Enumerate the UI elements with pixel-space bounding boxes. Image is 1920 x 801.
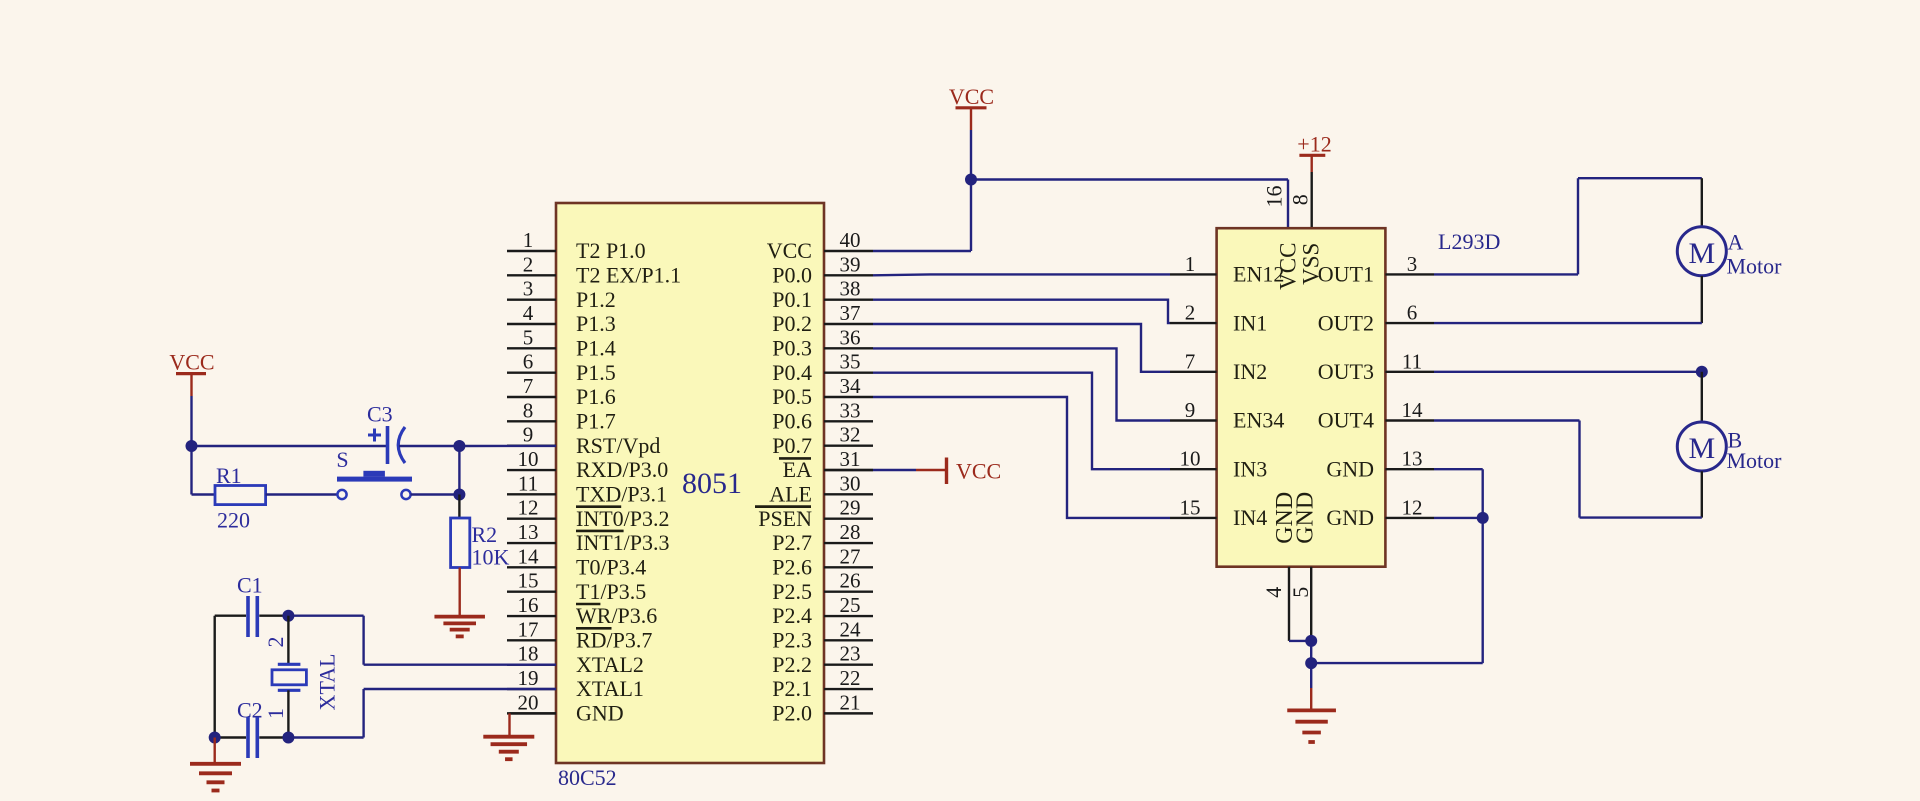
svg-text:P0.0: P0.0 [772,263,812,288]
svg-text:8: 8 [1288,194,1313,205]
wire C2 right lead to node [259,736,288,738]
svg-text:P2.3: P2.3 [772,628,812,653]
U2 pin 6 stub (OUT2) [1318,301,1434,336]
svg-text:8: 8 [523,398,534,422]
svg-text:34: 34 [840,374,862,398]
U1 pin 40 stub (VCC) [767,228,873,263]
capacitor C3 (polarized) [386,426,390,464]
svg-text:P0.7: P0.7 [772,433,812,458]
svg-text:2: 2 [1185,301,1196,325]
wire to U1 pin 18 XTAL2 [364,664,556,666]
U1 pin 34 stub (P0.5) [772,374,873,409]
svg-text:4: 4 [1261,587,1286,598]
svg-text:P2.0: P2.0 [772,701,812,726]
power port +12 [1297,132,1331,173]
U2 pin 11 stub (OUT3) [1318,349,1434,384]
wire R1 to switch S left terminal [266,493,338,495]
svg-text:P2.7: P2.7 [772,530,812,555]
svg-text:T2 P1.0: T2 P1.0 [576,238,646,263]
svg-text:R1: R1 [216,463,242,488]
svg-text:20: 20 [518,690,539,714]
power port VCC (EA) [916,458,1001,485]
wire U1 pin 40 to VCC drop [873,250,971,252]
U1 pin 29 stub (PSEN) [758,496,873,531]
U2 pin 12 stub (GND) [1326,495,1434,530]
power port VCC (left) [169,350,214,397]
wire down right gnd leg [1481,469,1483,663]
svg-text:P1.5: P1.5 [576,360,616,385]
wire motor B bottom down [1701,471,1703,517]
wire motor A bottom down [1701,276,1703,323]
svg-text:18: 18 [518,642,539,666]
wire corner up to XTAL1 row [362,689,364,738]
U1 pin 28 stub (P2.7) [772,520,873,555]
wire down to gnd node [1310,641,1312,663]
svg-text:GND: GND [1326,456,1374,481]
svg-text:16: 16 [1262,186,1287,208]
svg-text:2: 2 [263,637,288,648]
svg-text:11: 11 [518,471,538,495]
svg-text:220: 220 [217,508,250,533]
svg-text:6: 6 [523,350,534,374]
wire U2 pin 4 down [1288,567,1290,641]
svg-text:1: 1 [263,708,288,719]
svg-text:IN4: IN4 [1233,505,1267,530]
U1 pin 36 stub (P0.3) [772,325,873,360]
wire node down to motor B [1701,372,1703,423]
U1 pin 1 stub (T2 P1.0) [507,228,646,263]
U1 pin 23 stub (P2.2) [772,642,873,677]
svg-text:C3: C3 [367,402,393,427]
U1 pin 15 stub (T1/P3.5) [507,569,646,604]
svg-text:5: 5 [1288,587,1313,598]
svg-text:VCC: VCC [956,459,1001,484]
resistor R1 [215,486,266,505]
svg-text:15: 15 [518,569,539,593]
U1 INT0 underline [576,530,624,533]
svg-text:25: 25 [840,593,861,617]
svg-text:EA: EA [783,457,812,482]
U2 pin 13 stub (GND) [1326,447,1434,482]
svg-text:40: 40 [840,228,861,252]
U2 pin 10 stub (IN3) [1170,447,1267,482]
svg-text:VCC: VCC [949,84,994,109]
svg-text:11: 11 [1402,349,1422,373]
svg-text:3: 3 [523,277,534,301]
svg-text:EN34: EN34 [1233,408,1284,433]
U1 pin 6 stub (P1.5) [507,350,616,385]
svg-text:P0.5: P0.5 [772,384,812,409]
wire motor A bottom to U2 OUT2 (6) [1434,322,1702,324]
motor B [1677,422,1726,471]
U2 pin 14 stub (OUT4) [1318,398,1434,433]
svg-text:33: 33 [840,398,861,422]
wire node right to corner [288,736,363,738]
svg-text:13: 13 [1402,447,1423,471]
svg-text:19: 19 [518,666,539,690]
wire motor B left leg up [1578,421,1580,518]
U1 pin 14 stub (T0/P3.4) [507,544,646,579]
node: C3 / RST junction [453,440,465,452]
U1 pin 11 stub (TXD/P3.1) [507,471,667,506]
U2 pin 3 stub (OUT1) [1318,252,1434,287]
U1 pin 27 stub (P2.6) [772,544,873,579]
U2 pin 2 stub (IN1) [1170,301,1267,336]
svg-text:P1.3: P1.3 [576,311,616,336]
ground (below U1 GND) [483,735,534,739]
capacitor C1 [246,596,250,637]
wire switch right terminal to node [411,493,460,495]
wire U1 P0.5 (34) to U2 IN4 (15) [873,397,1170,518]
wire RST node down to switch row [458,446,460,495]
svg-text:S: S [336,447,348,472]
svg-text:30: 30 [840,471,861,495]
node: pin4/pin5 join [1305,635,1317,647]
IC U2 L293D body [1217,228,1386,567]
svg-text:9: 9 [523,423,534,447]
U1 pin 33 stub (P0.6) [772,398,873,433]
power port VCC (top) [949,84,994,130]
svg-text:T1/P3.5: T1/P3.5 [576,579,646,604]
U1 pin 35 stub (P0.4) [772,350,873,385]
wire node right to corner [288,615,363,617]
svg-text:P1.2: P1.2 [576,287,616,312]
svg-text:P1.7: P1.7 [576,409,616,434]
svg-text:GND: GND [1326,505,1374,530]
svg-text:Motor: Motor [1727,448,1783,473]
svg-text:14: 14 [518,544,540,568]
svg-text:OUT3: OUT3 [1318,359,1374,384]
U1 pin 12 stub (INT0/P3.2) [507,496,670,531]
U1 pin 16 stub (WR/P3.6) [507,593,657,628]
svg-text:OUT1: OUT1 [1318,262,1374,287]
svg-text:ALE: ALE [769,482,812,507]
node: VCC / C3 / R1 junction [186,440,198,452]
wire U1 P0.4 (35) to U2 IN3 (10) [873,373,1170,470]
svg-text:16: 16 [518,593,539,617]
U1 pin 38 stub (P0.1) [772,277,873,312]
wire U2 OUT3 (11) to motor B node [1434,371,1702,373]
svg-text:4: 4 [523,301,534,325]
U1 pin 8 stub (P1.7) [507,398,616,433]
U1 pin 13 stub (INT1/P3.3) [507,520,670,555]
svg-text:RST/Vpd: RST/Vpd [576,433,660,458]
svg-text:P2.2: P2.2 [772,652,812,677]
svg-text:Motor: Motor [1727,254,1783,279]
svg-text:P2.4: P2.4 [772,603,812,628]
svg-text:TXD/P3.1: TXD/P3.1 [576,482,667,507]
svg-text:WR/P3.6: WR/P3.6 [576,603,657,628]
svg-text:22: 22 [840,666,861,690]
svg-text:P0.6: P0.6 [772,409,812,434]
svg-text:6: 6 [1407,301,1418,325]
wire U2 OUT4 (14) to motor B leg [1434,419,1580,421]
node: switch / R2 junction [453,489,465,501]
U2 pin 9 stub (EN34) [1170,398,1284,433]
U1 pin 31 stub (EA) [783,447,873,482]
svg-text:3: 3 [1407,252,1418,276]
wire U2 pin 13 GND right [1434,468,1483,470]
wire U2 pin 5 down [1310,567,1312,641]
svg-text:XTAL: XTAL [315,654,340,711]
wire U1 P0.0 (39) to U2 EN12 (1) [873,273,1170,276]
svg-text:28: 28 [840,520,861,544]
svg-text:XTAL1: XTAL1 [576,676,644,701]
U2 pin 7 stub (IN2) [1170,349,1267,384]
U1 pin 37 stub (P0.2) [772,301,873,336]
node: motor B top [1696,366,1708,378]
wire RST node to U1 pin 9 [459,445,556,448]
wire gnd leg bottom to collect node [1311,662,1483,664]
svg-text:IN3: IN3 [1233,456,1267,481]
U1 pin 32 stub (P0.7) [772,423,873,458]
svg-text:VCC: VCC [767,238,812,263]
svg-text:T2 EX/P1.1: T2 EX/P1.1 [576,263,681,288]
svg-text:INT1/P3.3: INT1/P3.3 [576,530,670,555]
node: C2 / XTAL1 junction [282,732,294,744]
wire node to C3 left plate [192,445,388,447]
U1 pin 20 stub (GND) [507,690,624,725]
svg-text:36: 36 [840,325,861,349]
svg-text:P2.1: P2.1 [772,676,812,701]
wire C1 right lead to node [259,615,288,617]
svg-text:7: 7 [1185,349,1196,373]
wire U1 P0.3 (36) to U2 EN34 (9) [873,348,1170,420]
wire C1-C2 left vertical [213,616,215,738]
wire U1 P0.2 (37) to U2 IN2 (7) [873,324,1170,372]
node: C1 / XTAL2 junction [282,610,294,622]
svg-text:26: 26 [840,569,861,593]
svg-text:C1: C1 [237,573,263,598]
U1 pin 9 stub (RST/Vpd) [507,423,660,458]
svg-text:10: 10 [518,447,539,471]
wire VCC node down to U1 pin 40 [970,180,972,252]
motor A [1677,227,1726,276]
wire C2 node to ground [213,738,215,764]
svg-text:P1.4: P1.4 [576,336,616,361]
wire C3 right plate to RST node [399,445,459,447]
svg-text:P1.6: P1.6 [576,384,616,409]
capacitor C2 [246,717,250,758]
svg-text:9: 9 [1185,398,1196,422]
svg-text:27: 27 [840,544,861,568]
wire U2 pin 12 GND right [1434,517,1483,519]
svg-text:38: 38 [840,277,861,301]
svg-text:IN1: IN1 [1233,310,1267,335]
svg-text:OUT4: OUT4 [1318,408,1374,433]
U2 pin 15 stub (IN4) [1170,495,1267,530]
wire corner down to XTAL2 row [362,616,364,665]
ground (below C2) [190,762,241,766]
svg-text:OUT2: OUT2 [1318,310,1374,335]
U1 pin 30 stub (ALE) [769,471,873,506]
svg-text:L293D: L293D [1438,229,1500,254]
U1 WR underline [576,627,612,630]
svg-text:14: 14 [1402,398,1424,422]
wire collect node to ground [1310,663,1312,688]
wire C2 left lead [215,736,246,738]
U1 pin 39 stub (P0.0) [772,252,873,287]
U1 ALE / PSEN bar line [755,505,811,508]
wire C1 left lead [215,615,246,617]
svg-text:EN12: EN12 [1233,262,1284,287]
U1 pin 2 stub (T2 EX/P1.1) [507,252,681,287]
svg-text:10K: 10K [472,545,510,570]
node: pin 12 / gnd leg [1477,512,1489,524]
wire crystal bottom to node [287,690,289,737]
wire VCC stem down to node [190,396,192,446]
U1 TXD underline [576,505,621,508]
crystal Y1 XTAL [278,663,301,666]
U1 pin 10 stub (RXD/P3.0) [507,447,668,482]
svg-text:21: 21 [840,690,861,714]
wire top to motor A [1578,177,1702,179]
svg-text:XTAL2: XTAL2 [576,652,644,677]
node: ground collect [1305,657,1317,669]
ground (below U2) [1287,709,1336,713]
svg-text:PSEN: PSEN [758,506,812,531]
wire U1 pin 31 EA to VCC port [824,469,873,471]
svg-text:RD/P3.7: RD/P3.7 [576,628,652,653]
node: C2 / ground junction [209,732,221,744]
wire R2 to ground [459,568,461,617]
wire node down to crystal top [287,616,289,664]
U1 pin 4 stub (P1.3) [507,301,616,336]
svg-text:35: 35 [840,350,861,374]
svg-text:32: 32 [840,423,861,447]
wire U1 P0.1 (38) to U2 IN1 (2) [873,300,1170,323]
svg-text:24: 24 [840,617,862,641]
U1 pin 7 stub (P1.6) [507,374,616,409]
svg-text:80C52: 80C52 [558,765,617,790]
wire VCC node down to R1 row [190,446,192,495]
wire +12 to L293D pin 8 [1310,172,1312,228]
svg-text:+12: +12 [1297,132,1331,157]
U1 pin 26 stub (P2.5) [772,569,873,604]
svg-text:5: 5 [523,325,534,349]
switch S actuator bar [337,477,412,482]
svg-text:INT0/P3.2: INT0/P3.2 [576,506,670,531]
wire to U1 pin 19 XTAL1 [364,688,556,690]
svg-text:M: M [1688,237,1715,270]
U1 pin 18 stub (XTAL2) [507,642,644,677]
svg-text:RXD/P3.0: RXD/P3.0 [576,457,668,482]
svg-text:GND: GND [1292,492,1318,544]
svg-text:8051: 8051 [682,467,742,500]
svg-text:7: 7 [523,374,534,398]
U1 pin 25 stub (P2.4) [772,593,873,628]
svg-text:29: 29 [840,496,861,520]
svg-text:P0.1: P0.1 [772,287,812,312]
wire U1 pin 20 GND to ground [510,712,557,714]
U2 pin 1 stub (EN12) [1170,252,1284,287]
wire down into L293D pin 16 [1287,180,1289,229]
IC U1 8051 body [556,203,824,763]
svg-text:VCC: VCC [169,350,214,375]
resistor R2 [451,518,470,568]
U1 pin 5 stub (P1.4) [507,325,616,360]
svg-text:M: M [1688,432,1715,465]
wire motor B bottom left [1580,516,1702,518]
node: VCC distribution [965,174,977,186]
svg-text:23: 23 [840,642,861,666]
C3 plus sign [368,434,381,437]
svg-text:P2.5: P2.5 [772,579,812,604]
svg-text:1: 1 [1185,252,1196,276]
ground (below R2) [434,615,485,619]
svg-text:15: 15 [1180,495,1201,519]
svg-text:13: 13 [518,520,539,544]
U1 pin 17 stub (RD/P3.7) [507,617,652,652]
wire pin4 corner to pin5 [1289,640,1311,642]
wire down into motor A + terminal [1701,178,1703,227]
svg-text:IN2: IN2 [1233,359,1267,384]
U1 pin 24 stub (P2.3) [772,617,873,652]
svg-text:P0.2: P0.2 [772,311,812,336]
U1 pin 22 stub (P2.1) [772,666,873,701]
wire VCC stem to node [970,130,972,180]
wire up motor A left leg [1577,178,1579,274]
U1 pin 3 stub (P1.2) [507,277,616,312]
svg-text:12: 12 [1402,495,1423,519]
svg-text:GND: GND [576,701,624,726]
svg-text:R2: R2 [472,522,498,547]
U1 P0.7 / EA bar line [779,457,811,460]
switch S terminal circles [337,490,346,499]
svg-text:12: 12 [518,496,539,520]
U1 pin 21 stub (P2.0) [772,690,873,725]
wire U2 OUT1 (3) to motor A corner [1434,273,1578,275]
svg-text:P0.4: P0.4 [772,360,812,385]
U1 pin 19 stub (XTAL1) [507,666,644,701]
wire node down to R2 [458,495,460,519]
svg-text:39: 39 [840,252,861,276]
U1 T1 underline [576,603,600,606]
svg-text:P0.3: P0.3 [772,336,812,361]
svg-text:31: 31 [840,447,861,471]
svg-text:17: 17 [518,617,539,641]
svg-text:10: 10 [1180,447,1201,471]
svg-text:1: 1 [523,228,534,252]
wire VCC node right to L293D pin 16 [971,178,1288,180]
svg-text:P2.6: P2.6 [772,555,812,580]
svg-text:T0/P3.4: T0/P3.4 [576,555,646,580]
svg-text:2: 2 [523,252,534,276]
svg-text:37: 37 [840,301,861,325]
svg-text:A: A [1728,230,1744,255]
wire to R1 left lead [192,493,217,495]
